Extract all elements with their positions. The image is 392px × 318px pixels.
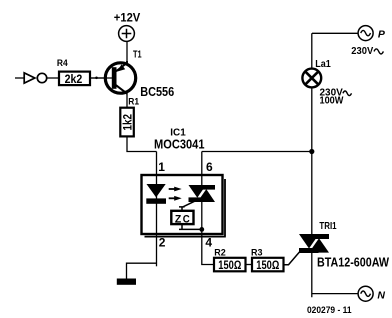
wire R2 to R3 xyxy=(246,264,253,266)
wire R3 to triac gate xyxy=(284,252,300,265)
wire pin6 row to lamp line xyxy=(202,151,312,153)
svg-text:Z: Z xyxy=(175,214,182,226)
svg-text:R1: R1 xyxy=(128,96,139,107)
svg-text:+12V: +12V xyxy=(114,12,141,24)
terminal P xyxy=(358,26,386,41)
input terminal circle xyxy=(37,73,46,82)
junction dot pin4 xyxy=(199,227,204,232)
wire main mains vertical xyxy=(311,33,313,234)
svg-text:R4: R4 xyxy=(57,58,68,69)
wire pin6 inside IC xyxy=(201,152,203,186)
junction dot lamp line xyxy=(309,149,314,154)
lamp La1 xyxy=(302,59,331,87)
wire terminal to R4 xyxy=(47,77,58,79)
svg-text:100W: 100W xyxy=(320,96,344,107)
svg-text:La1: La1 xyxy=(315,59,331,70)
node dot on base wire xyxy=(95,77,98,80)
label 230V~ at P xyxy=(351,46,383,57)
wire triac to N row xyxy=(312,253,358,297)
svg-text:MOC3041: MOC3041 xyxy=(154,138,205,152)
svg-text:6: 6 xyxy=(206,160,213,174)
light arrows xyxy=(169,187,182,201)
wire pin1 and pin2 through IC xyxy=(156,152,158,267)
wire pin2 to ground xyxy=(127,263,157,279)
svg-text:2k2: 2k2 xyxy=(65,72,83,86)
wire P terminal row xyxy=(312,32,358,34)
zero crossing box ZC xyxy=(171,211,193,226)
svg-text:020279 - 11: 020279 - 11 xyxy=(307,305,352,316)
svg-text:T1: T1 xyxy=(133,50,142,61)
svg-text:C: C xyxy=(183,214,190,226)
svg-text:R3: R3 xyxy=(251,247,263,258)
svg-text:BTA12-600AW: BTA12-600AW xyxy=(317,256,389,270)
svg-text:1: 1 xyxy=(158,160,165,174)
svg-text:1k2: 1k2 xyxy=(120,114,134,131)
svg-text:R2: R2 xyxy=(214,247,226,258)
LED inside optocoupler xyxy=(146,184,166,204)
IC1 MOC3041 optocoupler box xyxy=(142,175,226,237)
terminal N xyxy=(358,286,385,301)
svg-text:150Ω: 150Ω xyxy=(256,258,279,272)
svg-text:N: N xyxy=(377,289,385,301)
resistor R4 xyxy=(57,58,90,86)
wire R4 to T1 base xyxy=(91,77,113,79)
svg-text:2: 2 xyxy=(159,236,166,250)
label 230V~ 100W at lamp xyxy=(320,88,352,107)
resistor R3 xyxy=(251,247,284,272)
wire input xyxy=(15,77,24,79)
svg-text:150Ω: 150Ω xyxy=(218,258,241,272)
power terminal +12V xyxy=(114,12,141,41)
svg-text:TRI1: TRI1 xyxy=(319,221,337,232)
input arrow symbol xyxy=(24,73,35,83)
resistor R1 xyxy=(120,96,139,136)
wire collector to R1 to node row xyxy=(127,94,157,152)
resistor R2 xyxy=(214,247,246,272)
transistor T1 xyxy=(91,50,174,99)
wire +12V terminal to emitter xyxy=(126,41,128,63)
wire ZC bottom to pin4 xyxy=(179,225,202,230)
svg-text:BC556: BC556 xyxy=(140,85,174,99)
svg-text:P: P xyxy=(378,28,386,40)
ground xyxy=(117,279,136,285)
internal triac of optocoupler xyxy=(189,185,216,202)
triac TRI1 xyxy=(299,221,337,253)
svg-text:230V: 230V xyxy=(351,46,373,57)
svg-text:4: 4 xyxy=(205,236,212,250)
wire pin4 from internal triac to R2 xyxy=(202,202,213,265)
gate wire ZC to internal triac xyxy=(179,201,196,210)
